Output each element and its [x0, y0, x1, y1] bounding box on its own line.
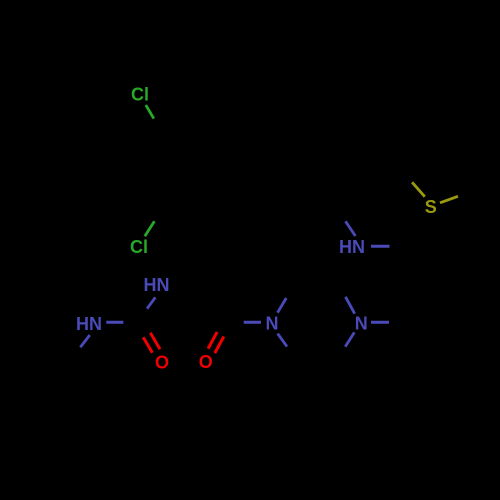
bond NH(secondary amine)-CH2 upper (nitrogen half): [346, 221, 356, 236]
svg-text:S: S: [425, 197, 437, 217]
bond N2-ring CH2 lower (nitrogen half): [345, 332, 354, 346]
bond N1-ring CH2 upper (nitrogen half): [278, 298, 287, 313]
bond N1-ring CH2 lower (nitrogen half): [278, 334, 287, 347]
bond HN(terminal)-ethyl C (nitrogen half): [80, 335, 90, 347]
svg-text:HN: HN: [339, 237, 365, 257]
bond S-CH2 (sulfur half): [412, 182, 425, 196]
svg-text:HN: HN: [76, 314, 102, 334]
bond HN(terminal)-carbonyl C (nitrogen half, horizontal): [106, 321, 123, 324]
bond NH(secondary amine)-CH2 right (nitrogen half, horizontal): [371, 245, 390, 248]
bond S-CH3 (sulfur half): [440, 196, 458, 203]
double bond C=O2 line L (oxygen half): [208, 332, 217, 349]
bond N2-substituent CH2 (nitrogen half, horizontal): [371, 321, 389, 324]
double bond C=O1 line B (oxygen half): [150, 333, 160, 349]
bond amideC-N1 (nitrogen half, horizontal): [244, 321, 261, 324]
svg-text:HN: HN: [144, 275, 170, 295]
double bond C=O2 line R (oxygen half): [215, 337, 224, 354]
svg-text:O: O: [199, 352, 213, 372]
bond Cl1-ring (chlorine half): [146, 105, 154, 119]
svg-text:O: O: [155, 353, 169, 373]
svg-text:N: N: [355, 314, 368, 334]
bond N2-ring CH2 upper (nitrogen half): [346, 297, 355, 314]
svg-text:N: N: [266, 314, 279, 334]
svg-text:Cl: Cl: [130, 237, 148, 257]
svg-text:Cl: Cl: [131, 85, 149, 105]
bond HN(urea)-C=O carbonyl (nitrogen half): [147, 297, 155, 308]
bond Cl2-ring (chlorine half): [145, 221, 155, 236]
double bond C=O1 line A (oxygen half): [143, 337, 152, 353]
